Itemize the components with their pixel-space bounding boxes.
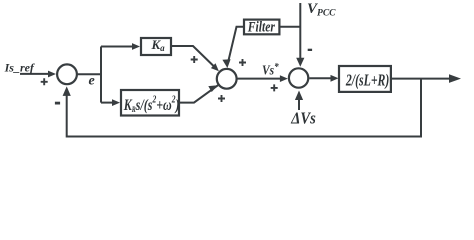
svg-text:Is_ref: Is_ref	[4, 61, 35, 75]
svg-text:ΔVs: ΔVs	[290, 110, 315, 128]
svg-text:e: e	[89, 74, 95, 89]
svg-text:Filter: Filter	[247, 18, 276, 35]
svg-text:KRs/(s2+ω2): KRs/(s2+ω2)	[123, 93, 180, 114]
svg-text:2/(sL+R): 2/(sL+R)	[345, 72, 389, 91]
